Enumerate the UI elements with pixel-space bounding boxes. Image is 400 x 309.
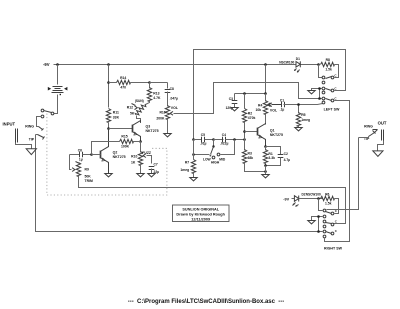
svg-text:R9: R9: [85, 168, 89, 172]
dashed annotation box: [47, 114, 167, 196]
wire node to C8: [150, 82, 168, 84]
resistor R15 100K: [92, 135, 141, 149]
capacitor C1 .1u: [269, 99, 285, 112]
node C4 to R2-R3: [243, 138, 246, 141]
node D2-R6: [317, 197, 320, 200]
ground R10: [137, 174, 144, 177]
title block SUNLION ORIGINAL: [173, 205, 230, 222]
ground left sw: [308, 91, 315, 94]
svg-text:RIGHT SW: RIGHT SW: [324, 246, 343, 250]
wire supply node row: [235, 93, 266, 95]
svg-text:SUNLION ORIGINAL: SUNLION ORIGINAL: [182, 208, 219, 212]
svg-text:VOL: VOL: [171, 106, 179, 110]
node LOW-R7: [192, 153, 195, 156]
svg-text:D1: D1: [296, 57, 300, 61]
svg-text:R4: R4: [258, 103, 262, 107]
svg-text:C7: C7: [154, 163, 158, 167]
ground right sw: [308, 221, 315, 224]
switch battery common: [44, 111, 54, 115]
svg-text:INPUT: INPUT: [3, 122, 16, 127]
svg-text:RING: RING: [25, 125, 34, 129]
svg-text:1meg: 1meg: [301, 118, 310, 122]
resistor R8 1.5k: [321, 58, 335, 71]
node tone switch tap: [212, 138, 215, 141]
svg-text:1.5k: 1.5k: [325, 67, 332, 71]
input jack sleeve ground wire: [16, 143, 32, 149]
wire base node to Q1: [245, 131, 258, 133]
svg-text:RING: RING: [364, 125, 373, 129]
node C6 right / Q2 base / feedback: [90, 153, 93, 156]
wire input tip to bottom bus: [36, 135, 319, 232]
svg-text:4.7µ: 4.7µ: [284, 158, 291, 162]
node Q1 emitter: [264, 145, 267, 148]
switch LEFT SW pole1: [322, 74, 337, 84]
wire R9 bottom to output bus: [79, 176, 346, 224]
input jack ring contact: [39, 127, 44, 131]
svg-text:3.3k: 3.3k: [268, 156, 275, 160]
battery V1: [48, 65, 68, 114]
resistor R11 33K: [106, 109, 119, 123]
capacitor C5 .01u: [194, 133, 214, 145]
ground R7: [190, 178, 197, 181]
potentiometer R9 50K TRIM: [72, 162, 93, 183]
wire feedback riser: [92, 142, 120, 155]
resistor R7 1meg: [180, 140, 195, 178]
svg-text:.022µ: .022µ: [220, 142, 228, 146]
wire C6 node to Q2 base: [92, 154, 101, 156]
svg-text:(SUN): (SUN): [135, 99, 144, 103]
wire C1 to left switch: [284, 104, 323, 105]
label RIGHT SW: [324, 246, 343, 250]
wire VOL wiper to bypass: [174, 83, 320, 114]
switch LEFT SW pole3: [322, 97, 337, 104]
switch RIGHT SW pole3: [323, 229, 338, 238]
potentiometer R10 1K FUZZ: [131, 142, 151, 166]
switch RIGHT SW pole2: [323, 220, 338, 228]
label LEFT SW: [324, 107, 340, 111]
svg-text:R5: R5: [301, 113, 305, 117]
node R5 top: [297, 103, 300, 106]
svg-text:OUT: OUT: [378, 121, 387, 126]
wire LOW throw to R7 node: [194, 154, 210, 156]
net -9V rail: [43, 62, 319, 67]
svg-text:R11: R11: [113, 111, 119, 115]
svg-text:R15: R15: [121, 135, 127, 139]
switch LOW MID HIGH: [203, 140, 226, 165]
resistor R5 1meg: [296, 105, 310, 128]
svg-text:C2: C2: [284, 152, 288, 156]
node R3 return: [264, 170, 267, 173]
input jack: [3, 122, 35, 143]
svg-text:1meg: 1meg: [180, 168, 189, 172]
svg-text:C3: C3: [229, 97, 233, 101]
wire base node to Q3: [109, 128, 133, 130]
svg-text:5K: 5K: [130, 112, 135, 116]
svg-text:470: 470: [120, 86, 126, 90]
svg-text:LEFT SW: LEFT SW: [324, 107, 340, 111]
ground C7: [148, 174, 155, 177]
node Q1 base: [243, 130, 246, 133]
ground R5: [295, 128, 302, 131]
svg-text:R16: R16: [159, 110, 165, 114]
switch battery throw up: [41, 109, 44, 112]
svg-text:FUZZ: FUZZ: [142, 151, 151, 155]
svg-text:R6: R6: [325, 192, 329, 196]
svg-text:1µ: 1µ: [79, 158, 83, 162]
wire D2 to R6: [299, 198, 323, 200]
capacitor C6 1u: [70, 148, 92, 161]
svg-text:NKT275: NKT275: [270, 133, 283, 137]
potentiometer R12 5K (SUN): [127, 99, 147, 123]
node Q3 base / Q2 collector: [107, 127, 110, 130]
wire rail to R11/R14 node: [108, 65, 110, 108]
svg-text:4.7K: 4.7K: [153, 96, 161, 100]
svg-text:R7: R7: [185, 160, 189, 164]
node left sw hook a: [318, 87, 321, 90]
svg-text:R8: R8: [326, 58, 330, 62]
svg-text:470k: 470k: [248, 116, 256, 120]
svg-text:C6: C6: [78, 148, 82, 152]
net -9V to D2: [283, 198, 294, 202]
node right sw hook a: [317, 215, 320, 218]
ground C3: [231, 108, 238, 111]
svg-text:10k: 10k: [256, 108, 262, 112]
potentiometer R4 10k VOL: [256, 94, 278, 125]
svg-text:R12: R12: [127, 106, 133, 110]
svg-text:C4: C4: [222, 133, 226, 137]
wire R8 loop to common1: [335, 65, 339, 78]
ground Q2 emitter: [105, 174, 112, 177]
LED D2 NSCW100: [293, 192, 321, 206]
transistor Q2 NKT275: [101, 129, 126, 174]
svg-text:-9V: -9V: [43, 62, 50, 67]
svg-text:100K: 100K: [121, 145, 130, 149]
node R14-R13-C8: [148, 81, 151, 84]
svg-text:68k: 68k: [248, 156, 254, 160]
svg-text:Drawn by Kirkwood Rough: Drawn by Kirkwood Rough: [176, 213, 225, 217]
switch LEFT SW pole2: [322, 87, 337, 94]
svg-text:VOL: VOL: [270, 108, 278, 112]
svg-text:1.5k: 1.5k: [325, 202, 332, 206]
capacitor C7 22u: [149, 163, 159, 174]
switch RIGHT SW pole1: [323, 209, 338, 218]
svg-text:--- C:\Program Files\LTC\SwCA: --- C:\Program Files\LTC\SwCADIII\Sunlio…: [128, 299, 285, 305]
node rail end R8: [317, 63, 320, 66]
wire top bypass: [194, 50, 346, 140]
svg-text:.047µ: .047µ: [170, 96, 178, 100]
capacitor C3 120u: [226, 94, 238, 111]
transistor Q1 NKT275: [258, 124, 283, 147]
capacitor C8 .047u: [165, 83, 178, 107]
wire out tip to right sw: [327, 138, 359, 210]
wire rail stub to throw1a: [319, 65, 323, 78]
svg-text:TRIM: TRIM: [85, 179, 93, 183]
resistor R13 4.7K: [146, 83, 162, 105]
ground input jack: [26, 149, 36, 155]
node rail junction battery: [56, 63, 59, 66]
wire ground hook right sw: [312, 217, 323, 232]
capacitor C4 .022u: [214, 133, 245, 145]
wire R16 bottom to ground: [167, 119, 169, 134]
resistor R2 470k: [242, 94, 255, 140]
footer file path: [128, 299, 285, 305]
wire common3 to right drop: [325, 101, 350, 242]
ground output jack: [373, 151, 383, 157]
wire MID throw to C4 node: [221, 140, 235, 155]
potentiometer R16 200K VOL: [156, 106, 178, 121]
svg-text:200K: 200K: [156, 116, 165, 120]
node C5 left: [192, 138, 195, 141]
wire R10 bottom: [140, 164, 142, 174]
node R14 branch: [107, 81, 110, 84]
node Q3 emitter / R15 / fuzz: [139, 140, 142, 143]
switch battery throw ring: [37, 115, 44, 126]
svg-text:.1µ: .1µ: [280, 107, 285, 111]
wire R6 loop to commonR1: [335, 199, 339, 214]
svg-text:NSCW100: NSCW100: [279, 60, 294, 64]
wire C6 left loop to trim wiper: [70, 155, 72, 170]
node rail junction R11: [107, 63, 110, 66]
input jack tip contact: [36, 135, 45, 140]
wire emitter network to ground: [265, 166, 267, 175]
capacitor C2 4.7u: [266, 147, 291, 166]
svg-text:12/11/2009: 12/11/2009: [191, 217, 210, 221]
output jack tip contact: [359, 131, 376, 138]
svg-text:50K: 50K: [85, 174, 92, 178]
node left sw hook b: [318, 97, 321, 100]
svg-text:-9V: -9V: [283, 198, 289, 202]
node R1-C2 bottom: [264, 164, 267, 167]
svg-text:.01µ: .01µ: [200, 142, 207, 146]
node R4 top: [264, 92, 267, 95]
transistor Q3 NKT275: [133, 121, 159, 142]
resistor R3 68k: [242, 140, 265, 172]
svg-text:R10: R10: [131, 154, 137, 158]
node right sw hook b: [317, 230, 320, 233]
wire R11 to base node: [108, 123, 110, 129]
resistor R6 1.5k: [321, 192, 335, 205]
svg-text:1K: 1K: [131, 160, 136, 164]
svg-text:R14: R14: [120, 76, 126, 80]
svg-text:HIGH: HIGH: [211, 161, 220, 165]
node rail junction R4 branch: [264, 63, 267, 66]
svg-text:33K: 33K: [113, 115, 120, 119]
svg-text:NKT275: NKT275: [113, 155, 126, 159]
ground Q1 stage: [262, 175, 269, 178]
ground R16: [164, 134, 171, 137]
output jack: [364, 121, 387, 142]
svg-text:C5: C5: [201, 133, 205, 137]
svg-text:MID: MID: [219, 157, 226, 161]
node C4 right: [233, 138, 236, 141]
svg-text:TIP: TIP: [29, 137, 35, 141]
wire D2 stub to throwR1a: [319, 199, 323, 211]
svg-text:NKT275: NKT275: [146, 129, 159, 133]
resistor R14 470: [109, 76, 150, 89]
svg-text:C1: C1: [280, 99, 284, 103]
node R2 top: [243, 92, 246, 95]
wire rail drop to supply node: [265, 65, 267, 94]
wire ground hook left sw: [312, 89, 323, 99]
svg-text:Q2: Q2: [113, 150, 118, 154]
output jack sleeve: [378, 141, 384, 151]
svg-text:C8: C8: [170, 87, 174, 91]
svg-text:NSCW100: NSCW100: [306, 192, 321, 196]
resistor R1 3.3k: [263, 147, 275, 166]
svg-text:R13: R13: [153, 91, 159, 95]
svg-text:Q3: Q3: [146, 125, 151, 129]
svg-text:R2: R2: [248, 111, 252, 115]
LED D1 NSCW100: [279, 57, 300, 72]
